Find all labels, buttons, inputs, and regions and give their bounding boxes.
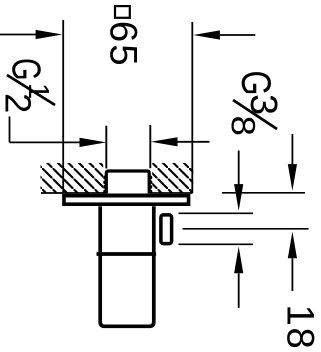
- dim line 65 left: [0, 34, 38, 36]
- square symbol: [115, 6, 130, 18]
- wall hatching right: [152, 163, 193, 193]
- valve handle lower body: [100, 255, 154, 326]
- 18 dim line upper: [291, 134, 293, 165]
- arrowhead 65 left: [36, 30, 63, 39]
- knob bottom extension line: [179, 243, 254, 245]
- extension line nut right: [149, 125, 151, 168]
- extension line 65 right: [191, 22, 193, 193]
- outlet axis extension line: [183, 228, 309, 230]
- valve body upper sides: [100, 206, 154, 252]
- knob top extension line: [179, 212, 254, 214]
- arrowhead 65 right: [193, 30, 220, 39]
- wall face line: [41, 192, 193, 194]
- arrowhead 18 down: [288, 164, 297, 191]
- arrowhead G3/8 up: [234, 247, 243, 274]
- extension line nut left: [105, 126, 107, 169]
- arrowhead G3/8 down: [234, 184, 243, 211]
- nut dim line left: [10, 141, 81, 143]
- leader G1/2 vertical: [9, 117, 11, 143]
- thread bumps right: [148, 176, 152, 194]
- wall hatching left: [41, 163, 104, 193]
- fraction slash 1/2: [7, 75, 55, 105]
- G3/8 dim line lower: [238, 273, 240, 308]
- label 18: [287, 307, 314, 347]
- arrowhead 18 up: [288, 232, 297, 259]
- label G1/2: [6, 59, 56, 111]
- 18 dim line lower: [291, 258, 293, 291]
- G1/2 glyphs: [6, 59, 49, 111]
- 18 glyphs: [287, 307, 314, 347]
- escutcheon flange: [64, 196, 189, 205]
- arrowhead nut right: [151, 137, 178, 146]
- arrowhead nut left: [80, 138, 107, 147]
- dim line 65 right: [220, 34, 255, 36]
- threaded stud G1/2: [106, 171, 149, 193]
- G3/8 glyphs: [231, 72, 277, 134]
- G3/8 dim line upper: [238, 151, 240, 187]
- body split line: [97, 252, 157, 256]
- label G3/8: [231, 72, 277, 134]
- extension line 65 left: [62, 20, 64, 193]
- outlet knob G3/8: [161, 215, 172, 244]
- thread bumps left: [103, 176, 107, 194]
- nut dim line right: [178, 141, 210, 143]
- wall face extension line right: [222, 192, 305, 194]
- 65 glyphs: [110, 23, 137, 64]
- label 65: [110, 23, 137, 64]
- fraction slash 3/8: [233, 100, 277, 129]
